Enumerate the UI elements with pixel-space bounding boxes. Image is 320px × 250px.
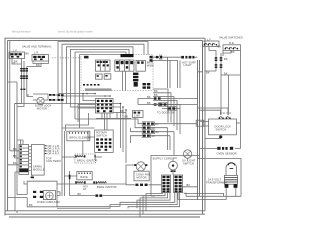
oven sensor connectors (217, 147, 233, 150)
wire nested loop 5 (75, 52, 126, 119)
valve switch box R.R. (223, 45, 241, 51)
svg-text:SUPPLY CORD: SUPPLY CORD (153, 157, 172, 161)
conv fan terminals (134, 164, 147, 166)
connector ticks small (20, 89, 25, 90)
svg-text:2A: 2A (83, 187, 87, 191)
svg-text:Wiring information: Wiring information (12, 31, 31, 34)
wire nested loop 6 (80, 55, 124, 128)
svg-text:BK: BK (231, 50, 235, 54)
wire dls right (236, 122, 240, 124)
svg-text:CON TERM: CON TERM (46, 159, 61, 163)
svg-text:BAKE IGNITOR: BAKE IGNITOR (97, 185, 117, 189)
valve L.R. terminals (33, 56, 45, 60)
door lock motor X (38, 99, 43, 103)
wire dls top (198, 108, 229, 115)
wire motor terminals right (55, 95, 62, 100)
wires into strip (8, 151, 19, 165)
junction dots under console (82, 93, 111, 97)
connector cluster console right (143, 83, 151, 89)
transformer ring marks (228, 163, 235, 169)
wire left inner lines (10, 41, 24, 195)
svg-text:BK: BK (159, 57, 163, 61)
switch arcs R.R. (225, 47, 238, 49)
wire console bend r1 (153, 89, 168, 123)
valve box L.R. (32, 55, 49, 61)
connector ticks row1 (20, 68, 28, 72)
oven light circle (169, 161, 178, 170)
wire long mid horizontal (15, 103, 67, 105)
wire p1 right b (96, 113, 131, 118)
door lock switch arcs (219, 117, 231, 119)
inline connector pair midleft (48, 93, 50, 95)
bake ignitor zigzag row (77, 182, 107, 184)
fanout drop 1 (146, 193, 163, 211)
svg-text:BK: BK (125, 115, 129, 119)
svg-text:BK: BK (155, 122, 159, 126)
spark strip cells (19, 148, 29, 168)
wire strip bottom (15, 140, 32, 211)
svg-text:BROIL ELEMENT: BROIL ELEMENT (70, 136, 92, 140)
svg-text:BK: BK (156, 130, 160, 134)
wire sw bottom left (205, 71, 241, 75)
bake element dots (78, 173, 91, 174)
connector ticks sw group2 (215, 64, 223, 68)
wire ignitor left (62, 155, 102, 161)
lamp filament (47, 193, 52, 198)
wire connector to bundle (195, 56, 198, 58)
svg-text:BK: BK (78, 192, 82, 196)
svg-text:BK: BK (224, 57, 228, 61)
wires stack left (131, 118, 144, 144)
lamp terminals (33, 191, 43, 198)
fanout drop 3 (9, 193, 168, 218)
broil ignitor dashed box (75, 154, 96, 163)
door lock motor terminals (49, 94, 55, 101)
svg-text:BK: BK (206, 71, 210, 75)
fanout drop 6 (57, 193, 177, 209)
svg-text:BK: BK (147, 101, 151, 105)
lamp inner rect (43, 191, 55, 200)
conv fan circle (136, 162, 145, 171)
svg-text:BK: BK (154, 93, 158, 97)
svg-text:BK: BK (14, 59, 18, 63)
door lock switch box (209, 119, 237, 135)
transformer stripes (224, 178, 237, 182)
wire bake junction left (64, 171, 76, 196)
connector blob on loop6 (84, 56, 89, 59)
thick junction bar (69, 175, 71, 180)
fanout drop 4 (137, 193, 170, 209)
wire inner verticals (168, 57, 171, 88)
connector stack rows (143, 123, 154, 137)
transformer bell (226, 163, 237, 176)
spark module pins (29, 146, 32, 170)
dashed console top (52, 57, 81, 59)
wire nested loop 4 (71, 49, 130, 107)
spark module box (31, 145, 44, 176)
clock pins (116, 61, 133, 69)
bake ignitor end marks (75, 181, 97, 184)
wire stack verticals (131, 128, 175, 156)
strip bottom blob (31, 177, 34, 179)
svg-text:BK: BK (147, 95, 151, 99)
small box on bundle (196, 120, 204, 126)
wire console bend r5 (153, 105, 180, 135)
svg-text:BK: BK (152, 134, 156, 138)
wire nested loop 2 (62, 44, 144, 97)
wire left frame link (8, 82, 24, 198)
sub-box right (136, 60, 145, 71)
wire under console h1 (58, 94, 110, 97)
oven light dot (172, 164, 174, 166)
broil element dots (69, 132, 88, 133)
svg-text:W/BK: W/BK (147, 64, 154, 68)
svg-text:BK: BK (159, 53, 163, 57)
svg-text:BK: BK (13, 154, 17, 158)
svg-text:SWITCH: SWITCH (96, 133, 107, 137)
connector bar dark (121, 54, 134, 57)
oven enclosure box (62, 128, 95, 196)
spark strip (19, 145, 29, 175)
wire switch verticals (216, 50, 223, 75)
supply cord box (151, 156, 200, 197)
wire mid h4 (55, 94, 62, 129)
broil ignitor end marks (75, 155, 85, 157)
wire console bend r4 (153, 101, 177, 131)
right enclosure box (198, 159, 242, 197)
svg-text:BK: BK (224, 72, 228, 76)
transformer terminals (225, 184, 238, 188)
valve L.F. terminals (10, 53, 22, 57)
svg-text:MODULE: MODULE (33, 167, 45, 171)
small box P2b (104, 74, 111, 79)
latch box marks (134, 112, 141, 114)
ov light switch X (185, 151, 190, 156)
junction dots mid (120, 103, 127, 111)
svg-text:BR: BR (36, 63, 40, 67)
wire clock bottom verticals (123, 71, 126, 90)
valve switch box L.F. (203, 41, 220, 47)
sub-box selector (96, 60, 111, 71)
svg-text:TRANSFORMER: TRANSFORMER (206, 180, 227, 184)
wire switch LF drop (198, 47, 217, 72)
pin strip A (162, 175, 171, 193)
pin grid P2 dots (96, 138, 111, 150)
svg-text:BK: BK (187, 183, 191, 187)
wire valve right bottom (27, 61, 49, 67)
wire lamp to fan (57, 184, 126, 196)
fanout drop 8 (184, 193, 224, 197)
pin grid P1 dots (97, 100, 112, 112)
conv fan box (134, 171, 149, 181)
pin strip B cells (175, 176, 182, 192)
wire broil down (83, 131, 95, 154)
inline connector conv (135, 184, 147, 186)
svg-text:BAKE: BAKE (81, 175, 88, 179)
box P mark (97, 75, 99, 77)
pin strip B (174, 175, 183, 193)
wire conv fan left (126, 165, 162, 185)
wire connector link (152, 105, 180, 109)
pin strip A cells (162, 176, 169, 192)
junction dot ignitor (94, 155, 96, 157)
svg-text:BK: BK (120, 109, 124, 113)
wire bake bottom (70, 195, 162, 197)
wire console bend r2 (153, 93, 171, 123)
ov light switch circle (183, 150, 191, 158)
svg-text:2 BK: 2 BK (134, 113, 140, 117)
keyboard ribbon gray (85, 88, 112, 91)
wire dls bottom (205, 135, 221, 139)
svg-text:BK: BK (154, 89, 158, 93)
wire console bend r3 (153, 97, 174, 126)
door lock motor circle (37, 97, 44, 104)
svg-text:MOTOR: MOTOR (37, 106, 47, 110)
console bottom pins (83, 84, 99, 86)
wire switch RR drop (223, 50, 241, 148)
oven lamp box (24, 181, 57, 207)
wire p2 drop (65, 113, 88, 131)
svg-text:SWITCH: SWITCH (216, 127, 227, 131)
small box latch (133, 111, 144, 118)
svg-text:VALVE AND TERMINAL: VALVE AND TERMINAL (22, 45, 52, 49)
svg-text:OR-4 R.F.: OR-4 R.F. (47, 152, 60, 156)
svg-text:LIGHT: LIGHT (184, 63, 192, 67)
inline connector HSI (181, 56, 194, 59)
bake box (77, 172, 92, 180)
fanout right long (182, 187, 197, 193)
wires stack right (150, 124, 198, 136)
connector ticks sw group1 (215, 57, 223, 61)
door lock motor body (33, 94, 48, 100)
broil ignitor zigzag (77, 155, 84, 157)
wire nested loop 1 (58, 42, 148, 94)
connector pair motor right (58, 94, 64, 101)
svg-text:N.O. N.C.: N.O. N.C. (220, 111, 232, 115)
fanout right branch (178, 193, 186, 200)
wire lamp left (17, 181, 27, 213)
clock dividers (120, 60, 130, 71)
wire valve left drop (12, 59, 22, 65)
valve box L.F. (9, 52, 25, 59)
svg-text:MOTOR: MOTOR (137, 175, 147, 179)
switch arcs L.F. (204, 43, 217, 45)
svg-text:L.R.: L.R. (34, 51, 39, 55)
svg-text:OVEN SENSOR: OVEN SENSOR (217, 152, 237, 156)
svg-text:BROIL IGNITOR: BROIL IGNITOR (77, 158, 97, 162)
wire mid h3 (75, 104, 138, 164)
inline connector bake (95, 194, 102, 197)
wire P1 verticals to P2 (105, 113, 108, 130)
svg-text:BK: BK (25, 51, 29, 55)
svg-text:(series 16) electric ignition: (series 16) electric ignition models (58, 31, 94, 34)
svg-text:BK: BK (218, 44, 222, 48)
svg-text:TO DOOR SW: TO DOOR SW (157, 111, 175, 115)
wire p1 right a (113, 112, 126, 114)
sub-box right pins (137, 61, 143, 63)
svg-text:VALVE SWITCHES: VALVE SWITCHES (219, 35, 243, 39)
svg-text:BK: BK (13, 161, 17, 165)
wire transformer down (178, 188, 241, 200)
wire console out right 2 (151, 60, 181, 88)
fanout drop 7 (128, 193, 180, 209)
wire bundle left 3 lines (15, 59, 27, 107)
pin grid P2 (95, 130, 114, 152)
oven sensor wire (200, 148, 241, 150)
sub-box clock (115, 60, 134, 71)
wire light stem (173, 158, 188, 175)
frame right bundle (198, 38, 206, 214)
conv fan X (138, 163, 144, 169)
wire grid P1 fan left (78, 94, 96, 120)
fanout drop 2 (143, 193, 165, 215)
console box (81, 55, 153, 91)
console pin blob r1 (150, 56, 163, 59)
svg-text:BK: BK (29, 203, 33, 207)
wire motor left (27, 94, 33, 97)
wire dls left (200, 122, 209, 127)
relay stack dark (133, 73, 138, 87)
pin grid P1 (96, 99, 114, 114)
svg-text:BK: BK (13, 147, 17, 151)
frame outer loop (5, 38, 205, 215)
fanout drop 5 (57, 193, 175, 207)
light connector (171, 170, 176, 172)
wire console out right 1 (151, 56, 182, 58)
inline connector pairs right mid (154, 97, 161, 105)
lamp circle (46, 192, 54, 200)
console pin blob r2 (150, 59, 153, 61)
svg-text:BK: BK (152, 126, 156, 130)
dls bottom blob (219, 136, 222, 139)
small box P (96, 74, 103, 79)
connector stack row boxes (142, 122, 154, 126)
broil element box (67, 131, 90, 141)
spark right pin labels (45, 145, 47, 154)
connector pair bend a (159, 103, 168, 107)
title text above frame (12, 31, 94, 34)
frame bottom pair (5, 211, 205, 217)
wire nested loop 3 (67, 47, 134, 104)
transformer body (224, 175, 237, 184)
spark strip cell marks (19, 145, 28, 172)
selector pins (97, 61, 109, 66)
connector ticks row2 (20, 75, 28, 79)
box P2b mark (105, 75, 107, 77)
svg-text:OVEN LAMP ASM: OVEN LAMP ASM (37, 200, 60, 204)
wire dls arcs up (221, 75, 228, 115)
wire mid h2 (67, 104, 121, 108)
wires right mid (138, 99, 198, 105)
selector dividers (100, 60, 105, 71)
svg-text:SWITCH: SWITCH (183, 161, 194, 165)
